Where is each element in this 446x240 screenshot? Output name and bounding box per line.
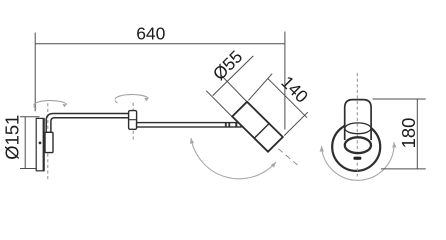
svg-text:Ø151: Ø151 [1, 115, 22, 160]
svg-text:180: 180 [398, 118, 419, 149]
svg-text:640: 640 [136, 23, 165, 43]
